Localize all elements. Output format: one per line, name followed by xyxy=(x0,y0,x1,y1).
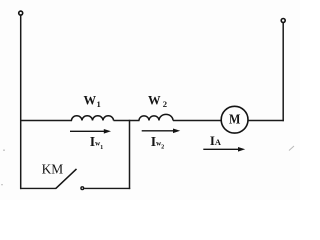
terminal left (top supply terminal) xyxy=(19,11,23,15)
motor M (armature) xyxy=(221,106,248,133)
wire: bottom rail right segment to tap junction xyxy=(84,187,130,189)
wire: bottom rail left segment xyxy=(20,187,56,189)
switch fixed contact (small circle) xyxy=(81,187,84,190)
svg-text:M: M xyxy=(229,111,241,126)
faint scan speck left edge xyxy=(3,150,5,151)
current arrow Iw2 xyxy=(142,130,174,132)
node: tap junction between W1 and W2, vertical wire down to switch rail xyxy=(129,120,131,189)
wire: W2 to motor xyxy=(173,120,222,122)
svg-text:KM: KM xyxy=(42,162,64,177)
inductor W2 (series winding, 3 loops) xyxy=(139,114,173,120)
wire: between W1 and W2 (through tap node) xyxy=(114,120,140,122)
current arrow Iw1 xyxy=(70,130,105,132)
inductor W1 (series winding, 4 loops) xyxy=(72,116,114,121)
wire: motor to right vertical xyxy=(248,120,284,122)
terminal right (top supply terminal) xyxy=(281,19,285,23)
wire: right vertical up to terminal xyxy=(282,23,284,122)
wire: main horizontal, left segment to W1 xyxy=(21,120,72,122)
current arrow IA xyxy=(203,148,239,150)
faint scan smudge right edge xyxy=(289,146,294,151)
wire: left vertical from terminal down to bottom rail xyxy=(20,15,22,189)
switch KM (open blade) xyxy=(56,169,77,189)
